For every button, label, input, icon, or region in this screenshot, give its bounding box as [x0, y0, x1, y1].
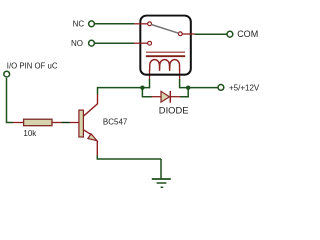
- wire collector rail to coil left: [98, 87, 151, 89]
- svg-text:DIODE: DIODE: [159, 105, 189, 116]
- relay core line 1: [146, 51, 185, 53]
- diode D1 cathode bar: [169, 91, 171, 103]
- relay core line 2: [146, 55, 185, 57]
- transistor Q1 base bar: [79, 110, 84, 137]
- wire coil left lead lower: [149, 79, 151, 88]
- wire coil right lead lower: [179, 79, 181, 88]
- junction node B: [186, 86, 190, 90]
- relay NO contact: [148, 41, 152, 45]
- relay COM pin: [182, 33, 195, 35]
- relay NO pin: [134, 42, 148, 44]
- ground bar 1: [152, 178, 171, 180]
- transistor Q1 collector lead: [83, 94, 97, 116]
- relay switch arm: [151, 25, 178, 34]
- relay COM contact: [178, 32, 182, 36]
- relay NC contact: [148, 22, 152, 26]
- resistor R1 body: [24, 119, 52, 126]
- svg-text:+5/+12V: +5/+12V: [229, 83, 260, 92]
- svg-text:I/O PIN OF uC: I/O PIN OF uC: [7, 62, 58, 71]
- resistor R1 right lead: [52, 122, 61, 124]
- wire I/O pin drop: [7, 78, 14, 123]
- ground bar 3: [161, 186, 164, 188]
- diode D1 cathode lead: [170, 96, 180, 98]
- wire node B down to diode cathode: [180, 88, 188, 97]
- transistor Q1 emitter lead: [83, 130, 91, 135]
- svg-text:10k: 10k: [23, 129, 37, 138]
- ground bar 2: [157, 182, 167, 184]
- junction node A: [140, 86, 144, 90]
- wire node A down to diode anode: [142, 88, 152, 97]
- wire relay to COM terminal: [195, 33, 227, 35]
- transistor Q1 emitter arrow: [88, 134, 97, 141]
- terminal +5/+12V: [218, 85, 224, 91]
- wire resistor to base: [61, 122, 70, 124]
- wire ground drop: [160, 159, 162, 178]
- terminal NC: [89, 21, 95, 27]
- relay coil: [150, 60, 180, 71]
- wire collector riser green part: [97, 87, 99, 94]
- svg-text:COM: COM: [237, 29, 258, 39]
- relay coil left lead: [149, 70, 151, 79]
- relay NC pin: [134, 23, 148, 25]
- terminal I/O pin: [4, 71, 10, 77]
- transistor Q1 emitter vertical lead: [96, 141, 98, 157]
- resistor R1 left lead: [13, 122, 24, 124]
- diode D1 triangle: [161, 91, 169, 102]
- wire coil right to +V terminal: [179, 87, 217, 89]
- transistor Q1 base pin: [70, 122, 79, 124]
- svg-text:NC: NC: [73, 20, 85, 29]
- diode D1 anode lead: [152, 96, 161, 98]
- relay RL1 body: [140, 16, 191, 75]
- wire emitter to ground run: [97, 156, 161, 160]
- wire NO terminal to relay: [95, 42, 134, 44]
- relay body border overlay: [140, 16, 191, 75]
- svg-text:NO: NO: [71, 39, 83, 48]
- svg-text:BC547: BC547: [103, 118, 128, 127]
- wire NC terminal to relay: [95, 23, 134, 25]
- relay coil right lead: [179, 70, 181, 79]
- terminal COM: [227, 31, 233, 37]
- terminal NO: [89, 40, 95, 46]
